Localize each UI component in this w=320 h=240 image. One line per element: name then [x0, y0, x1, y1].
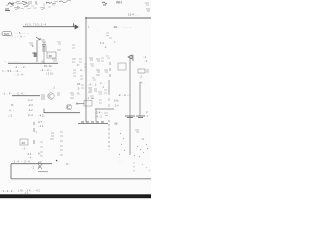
- block comp c3: [94, 89, 97, 91]
- svg-text:: 2 .: : 2 .: [52, 86, 57, 90]
- capacitor C21: [106, 33, 112, 38]
- svg-text:A 7 : .: A 7 : .: [38, 120, 45, 124]
- bus taps: [81, 121, 104, 123]
- svg-text:- : . -: - : . -: [118, 160, 123, 163]
- capacitor column k3: [40, 142, 43, 156]
- resistor R2: [14, 7, 19, 10]
- capacitor C18: [101, 58, 104, 61]
- svg-text:2-:4: 2-:4: [28, 113, 33, 117]
- capacitor chain CC3: [73, 70, 76, 76]
- resistor R23: [104, 113, 108, 116]
- resistor R25: [108, 98, 110, 107]
- resistor R6: [146, 9, 150, 11]
- svg-text:- 2: - 2: [144, 59, 148, 63]
- footer bar: [0, 194, 151, 198]
- X mark on W15: [38, 164, 42, 169]
- resistor R8 right marks: [57, 42, 61, 44]
- capacitor C16: [44, 3, 55, 7]
- resistor R21: [98, 92, 102, 94]
- varistor RV1: [9, 2, 27, 5]
- svg-text:4:-2: 4:-2: [28, 98, 33, 102]
- svg-text:2:: 2:: [146, 110, 148, 114]
- svg-text:c.: c.: [114, 41, 116, 44]
- svg-text:: 4 - . - 2 :: : 4 - . - 2 :: [14, 65, 26, 69]
- coil L4: [12, 2, 31, 9]
- wire W10: [76, 103, 84, 105]
- svg-text:32: 32: [32, 51, 36, 55]
- capacitor C2: [5, 9, 10, 11]
- capacitor column k1: [50, 133, 54, 139]
- wire W16 left bracket: [10, 164, 12, 179]
- capacitor C1: [16, 1, 21, 4]
- capacitor C10: [57, 93, 60, 95]
- capacitor chain CC2: [72, 59, 76, 62]
- block comp c2: [88, 88, 92, 92]
- capacitor C17: [84, 64, 87, 67]
- capacitor C7: [41, 40, 46, 42]
- svg-text:. -: . -: [14, 118, 16, 121]
- coil L1: [8, 3, 14, 5]
- resistor R12: [104, 70, 108, 72]
- svg-text:4 : .: 4 : .: [140, 81, 145, 85]
- wire W8: [12, 95, 40, 97]
- resistor R20: [106, 56, 110, 58]
- capacitor C20: [99, 100, 102, 103]
- svg-text:. %: . %: [140, 137, 144, 141]
- svg-text:. . .: . . .: [96, 29, 100, 32]
- label dot right: [56, 160, 57, 161]
- resistor R24: [92, 78, 96, 80]
- svg-text:. - 2 : 4 -: . - 2 : 4 -: [14, 73, 24, 77]
- resistor R14: [41, 95, 45, 99]
- dashed wire W14: [108, 120, 110, 150]
- capacitor column k2: [60, 132, 63, 155]
- svg-text:-2: ⎯ 4. ⎯ :-: -2: ⎯ 4. ⎯ :-: [118, 93, 131, 97]
- diode D1: [42, 45, 46, 48]
- capacitor C19: [104, 90, 107, 93]
- svg-text:: 1 - 4 : 2 .: : 1 - 4 : 2 .: [1, 189, 14, 193]
- svg-text:- 2 4: - 2 4: [38, 124, 44, 128]
- faint marks right fm2: [133, 162, 135, 172]
- svg-text:.2-4: .2-4: [114, 104, 119, 108]
- capacitor C25: [46, 2, 56, 4]
- svg-text:18.: 18.: [77, 82, 81, 86]
- svg-text:- 2 : 4: - 2 : 4: [86, 96, 93, 100]
- ground G1: [125, 116, 135, 118]
- wire W2 main vertical bus: [85, 18, 87, 122]
- svg-text:2 - :: 2 - :: [100, 81, 105, 85]
- component column left cc1: [33, 122, 35, 144]
- svg-text::4-2: :4-2: [28, 108, 33, 112]
- svg-text:-2.4: -2.4: [28, 103, 33, 107]
- wire W13 right vertical: [139, 82, 141, 116]
- wire W7 right drop: [129, 55, 131, 155]
- svg-text:□ 2 .: □ 2 .: [8, 114, 14, 118]
- connector J1: [2, 32, 12, 37]
- vertical stub x109 upper: [108, 80, 110, 95]
- trimmer capacitor CT1: [6, 3, 29, 8]
- junction node N1: [85, 17, 87, 19]
- vertical chain right of R12: [109, 62, 111, 77]
- resistor R7: [42, 47, 47, 51]
- capacitor chain CC1: [72, 45, 75, 48]
- svg-text:12-4 . . .: 12-4 . . .: [128, 13, 139, 17]
- wire W4 left drop: [36, 40, 38, 62]
- svg-text:: 4 - . 2: : 4 - . 2: [88, 83, 97, 87]
- svg-text:½:.: ½:.: [77, 92, 81, 96]
- wire W11: [95, 108, 114, 110]
- coil L3: [59, 1, 71, 3]
- capacitor C5: [102, 2, 107, 5]
- svg-text:1%:.: 1%:.: [114, 99, 120, 103]
- component right rm1: [135, 130, 139, 132]
- scatter dots d2: [134, 144, 148, 157]
- capacitor C4: [35, 1, 37, 4]
- svg-text:. 4: . 4: [101, 85, 104, 89]
- svg-text:. 4 1 0 . 7 5 3 : 2 - 4: . 4 1 0 . 7 5 3 : 2 - 4: [24, 23, 47, 27]
- svg-text:.2-: .2-: [77, 87, 80, 91]
- capacitor C6: [29, 43, 33, 45]
- resistor R13: [138, 69, 149, 73]
- svg-text:1 2: 1 2: [100, 41, 104, 45]
- svg-text:- 2 :: - 2 :: [22, 147, 27, 151]
- transistor Q1: [128, 55, 133, 61]
- IC U2: [118, 63, 126, 70]
- bus terminal bar: [78, 123, 108, 125]
- transistor Q2: [48, 93, 54, 99]
- resistor R19: [90, 64, 94, 66]
- resistor R5: [145, 3, 149, 5]
- resistor R1: [23, 3, 28, 7]
- IC U3: [84, 101, 92, 107]
- svg-text:( 2 0 ): ( 2 0 ): [46, 72, 53, 76]
- junction arrow on W3: [74, 23, 79, 29]
- svg-text:: 2 .: : 2 .: [139, 75, 144, 79]
- svg-text:- 2 : 4 . - : 2 - 4 .: - 2 : 4 . - : 2 - 4 .: [12, 160, 31, 164]
- wire W15: [11, 163, 52, 165]
- capacitor C24: [81, 85, 84, 88]
- wire W12 drop from W11: [95, 109, 97, 122]
- capacitor C9: [96, 70, 100, 75]
- short rule: [38, 171, 48, 173]
- resistor R4: [54, 1, 58, 2]
- capacitor C22: [34, 53, 37, 58]
- svg-text:38: 38: [22, 141, 26, 145]
- svg-text:2 : .: 2 : .: [77, 63, 82, 67]
- wire W9: [44, 112, 80, 114]
- resistor R17: [31, 4, 38, 8]
- resistor R15: [70, 93, 74, 98]
- svg-text:38: 38: [49, 54, 53, 58]
- svg-text:|.: |.: [88, 25, 90, 29]
- resistor R11: [96, 59, 100, 61]
- resistor R18: [79, 59, 82, 62]
- stub on W9: [43, 109, 45, 114]
- svg-text:4 : -: 4 : -: [9, 109, 14, 113]
- resistor R10: [89, 58, 93, 60]
- IC U4: [20, 139, 28, 145]
- coil L2: [46, 2, 52, 4]
- resistor R3: [40, 7, 45, 10]
- svg-text:- 4 :: - 4 :: [28, 156, 33, 160]
- capacitor C8: [52, 59, 57, 61]
- wire W6: [8, 62, 58, 64]
- svg-text:: 2 4 .: : 2 4 .: [26, 152, 33, 156]
- svg-text:38: 38: [114, 122, 118, 126]
- faint dots fm3: [142, 164, 150, 171]
- svg-text:WH: WH: [116, 1, 122, 5]
- wire W5 center drop: [43, 42, 45, 64]
- svg-text:. : - 2: . : - 2: [28, 166, 35, 170]
- scatter dots d1: [119, 133, 125, 155]
- svg-text:- 2 : . 4 - : . - 2 : 4 . -: - 2 : . 4 - : . - 2 : 4 . -: [2, 92, 26, 96]
- arrow A1: [36, 37, 40, 40]
- svg-text::-.: :-.: [114, 109, 117, 112]
- svg-text:A:.: A:.: [38, 152, 41, 156]
- ground G2: [136, 116, 145, 118]
- svg-text:% : .: % : .: [66, 162, 71, 166]
- svg-text:DL: DL: [114, 25, 118, 29]
- capacitor C3: [29, 1, 31, 5]
- wire W1 top bus: [86, 17, 151, 19]
- wire W17 full rule: [11, 178, 151, 180]
- svg-text:4 - : .: 4 - : .: [80, 68, 87, 72]
- svg-text:: - 7 . : - . 4 : -: : - 7 . : - . 4 : -: [8, 35, 25, 39]
- resistor R9: [57, 49, 61, 51]
- capacitor C23: [80, 76, 83, 79]
- wire W3: [23, 26, 77, 28]
- IC U1: [47, 52, 56, 58]
- svg-text:4.: 4.: [38, 165, 40, 169]
- svg-text:.:: .:: [112, 25, 114, 29]
- svg-text:: . - .. - ..: : . - .. - ..: [122, 26, 132, 29]
- resistor R22: [90, 96, 94, 99]
- transistor Q3: [66, 104, 72, 110]
